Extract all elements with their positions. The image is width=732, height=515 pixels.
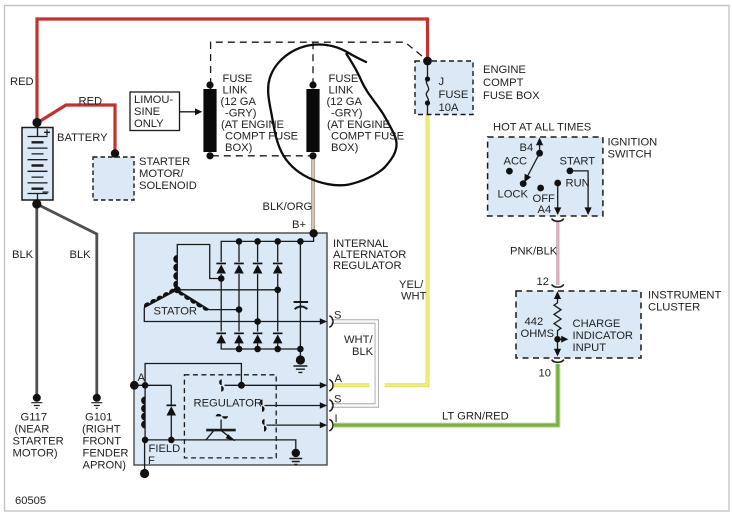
contact curl on A line	[219, 379, 222, 385]
connector arc ignition A4	[552, 219, 564, 222]
ground symbol G117	[31, 403, 42, 409]
capacitor C1 plates	[294, 301, 309, 303]
svg-text:I: I	[335, 413, 338, 425]
junction dot bottom bus col3	[254, 346, 261, 353]
rectifier column 1	[220, 274, 222, 332]
junction dot bus col3	[254, 238, 261, 245]
svg-text:60505: 60505	[15, 495, 46, 507]
arrowhead ignition B4 up	[536, 138, 543, 146]
ignition switch box	[488, 137, 603, 216]
junction dot bus capacitor	[297, 238, 304, 245]
transistor Q1 emitter arrow	[226, 434, 236, 441]
svg-text:FUSE: FUSE	[329, 73, 359, 85]
svg-text:INDICATOR: INDICATOR	[573, 330, 634, 342]
arrowhead A output	[320, 382, 327, 388]
wire BLK battery to G101	[37, 204, 97, 395]
fuse box dashed region outline	[211, 42, 428, 85]
instrument cluster box	[516, 291, 641, 358]
svg-text:F: F	[148, 455, 155, 467]
arrow from limousine box to fuse link 1	[180, 111, 198, 113]
rectifier diode D6	[234, 334, 244, 343]
arrowhead cluster down	[554, 349, 561, 357]
svg-text:IGNITION: IGNITION	[608, 137, 658, 149]
svg-text:(NEAR: (NEAR	[15, 424, 50, 436]
svg-text:YEL/: YEL/	[399, 279, 424, 291]
transistor Q1 emitter lead	[222, 431, 234, 440]
svg-text:BLK: BLK	[70, 249, 92, 261]
svg-text:STARTER: STARTER	[139, 156, 190, 168]
svg-text:FENDER: FENDER	[83, 448, 129, 460]
svg-text:G101: G101	[85, 412, 112, 424]
junction dot bottom bus capacitor corner	[297, 346, 304, 353]
S output line from regulator contact	[265, 405, 326, 407]
junction dot phase A col1	[218, 275, 225, 282]
connector arc cluster pin 12	[552, 284, 564, 287]
transistor Q1 base bar	[206, 429, 236, 432]
ignition switch internals	[526, 141, 589, 212]
svg-text:LIMOU-: LIMOU-	[134, 94, 173, 106]
J fuse box	[415, 61, 473, 115]
svg-text:REGULATOR: REGULATOR	[333, 260, 402, 272]
arrowhead charge indicator tap	[561, 336, 568, 343]
connector arc A terminal	[329, 380, 333, 392]
svg-text:LINK: LINK	[329, 85, 354, 97]
regulator dashed box	[184, 375, 276, 458]
junction dot A node	[142, 382, 149, 389]
stator winding 3 line	[177, 290, 209, 310]
rectifier diode D4	[273, 265, 283, 274]
svg-text:(AT ENGINE: (AT ENGINE	[327, 119, 390, 131]
svg-text:10A: 10A	[439, 102, 459, 114]
arrowhead S stator output	[320, 318, 327, 324]
junction dot field diode bottom	[168, 437, 175, 444]
junction dot B+ terminal	[309, 229, 317, 237]
svg-text:A: A	[335, 373, 343, 385]
svg-text:S: S	[334, 394, 341, 406]
svg-text:COMPT FUSE: COMPT FUSE	[225, 131, 298, 143]
junction dot starter solenoid terminal	[111, 149, 119, 157]
F terminal lead	[144, 440, 146, 471]
svg-text:-GRY): -GRY)	[331, 108, 363, 120]
svg-text:BOX): BOX)	[225, 142, 253, 154]
svg-text:-GRY): -GRY)	[225, 108, 257, 120]
contact dot START	[567, 168, 574, 175]
arrowhead S regulator output	[320, 402, 327, 408]
rectifier diode D5	[216, 334, 226, 343]
svg-text:442: 442	[525, 316, 544, 328]
svg-text:INPUT: INPUT	[573, 342, 607, 354]
rectifier diode D3	[253, 265, 263, 274]
wire RED battery to starter solenoid	[37, 105, 115, 152]
J fuse element	[426, 65, 428, 114]
stator winding 1 line	[176, 254, 178, 290]
arrowhead ignition RUN down	[554, 207, 561, 215]
junction dot field line left	[142, 437, 149, 444]
svg-text:BLK/ORG: BLK/ORG	[263, 201, 313, 213]
J fuse element dots	[425, 76, 430, 81]
svg-text:SINE: SINE	[134, 106, 160, 118]
svg-text:FRONT: FRONT	[83, 436, 122, 448]
svg-text:A4: A4	[538, 204, 552, 216]
stator winding 2 line	[144, 290, 177, 308]
junction dot fuse link 1 top	[206, 81, 213, 88]
svg-text:FUSE: FUSE	[439, 89, 469, 101]
svg-text:FIELD: FIELD	[149, 443, 181, 455]
svg-text:FUSE BOX: FUSE BOX	[483, 90, 540, 102]
contact curl on I line	[262, 419, 265, 425]
fuse link 1 body	[203, 89, 216, 152]
svg-text:WHT: WHT	[401, 291, 427, 303]
junction dot J fuse feed	[423, 57, 432, 66]
field diode leads	[170, 385, 172, 440]
svg-text:RED: RED	[10, 76, 34, 88]
svg-text:BATTERY: BATTERY	[57, 132, 108, 144]
svg-text:(AT ENGINE: (AT ENGINE	[221, 119, 284, 131]
rectifier diode D1	[216, 265, 226, 274]
svg-text:B+: B+	[292, 219, 306, 231]
svg-text:ACC: ACC	[504, 156, 528, 168]
wire YEL/WHT from J fuse to alternator A terminal	[334, 115, 428, 385]
svg-text:LINK: LINK	[223, 85, 248, 97]
limousine-only note box	[130, 92, 180, 131]
wire BLK battery to G117	[35, 204, 38, 395]
svg-text:FUSE: FUSE	[223, 73, 253, 85]
svg-text:INSTRUMENT: INSTRUMENT	[648, 290, 722, 302]
connector arc S regulator terminal	[329, 400, 333, 412]
connector arc S stator terminal	[329, 316, 333, 328]
transistor Q1 collector lead	[206, 431, 214, 440]
connector arc I terminal	[329, 419, 333, 431]
svg-text:STATOR: STATOR	[154, 306, 198, 318]
top bus in alternator	[221, 234, 313, 262]
wire RED battery to top run to fuse box	[37, 19, 428, 123]
A terminal node wiring	[134, 364, 241, 386]
stator winding 1 coil blobs	[173, 255, 177, 289]
arrowhead limousine note	[195, 108, 202, 115]
svg-text:APRON): APRON)	[83, 460, 127, 472]
svg-text:(RIGHT: (RIGHT	[82, 424, 121, 436]
battery box	[22, 128, 53, 201]
I output line from regulator contact	[267, 424, 326, 426]
svg-text:LOCK: LOCK	[498, 189, 529, 201]
contact curl transistor top	[216, 414, 222, 417]
svg-text:J: J	[439, 76, 445, 88]
svg-text:WHT/: WHT/	[344, 334, 373, 346]
wire PNK/BLK ignition switch to cluster pin 12	[556, 222, 559, 285]
junction dot bottom bus col4	[274, 346, 281, 353]
ground symbol rectifier	[293, 366, 307, 372]
battery internal plates	[28, 128, 48, 201]
svg-text:RED: RED	[79, 96, 103, 108]
junction dot battery negative	[32, 199, 41, 208]
arrowhead ignition wiper	[524, 174, 531, 183]
ignition wiper B4 to LOCK	[526, 153, 540, 180]
svg-text:COMPT: COMPT	[483, 77, 524, 89]
bottom bus in alternator	[221, 343, 300, 349]
ignition B4 feed arrow up	[539, 141, 541, 154]
field coil F1 line	[144, 385, 146, 440]
junction dot bus col4	[274, 238, 281, 245]
svg-text:10: 10	[539, 368, 551, 380]
svg-text:S: S	[334, 310, 341, 322]
svg-text:(12 GA: (12 GA	[327, 96, 363, 108]
arrowhead ignition START down	[585, 207, 592, 215]
svg-text:ENGINE: ENGINE	[483, 64, 526, 76]
svg-text:A: A	[138, 372, 146, 384]
connector arc cluster pin 10	[552, 360, 564, 363]
contact curl on S line	[260, 399, 263, 405]
junction dot A output	[238, 382, 245, 389]
stator phase B connection	[209, 309, 239, 311]
junction dot bus col2	[236, 238, 243, 245]
ignition START output arrow	[570, 171, 588, 212]
svg-text:STARTER: STARTER	[13, 436, 64, 448]
wire WHT/BLK stator S to regulator S	[331, 322, 377, 406]
capacitor C1 leads	[299, 241, 301, 358]
fuse box dashed region bottom edge	[211, 85, 312, 156]
wire LT GRN/RED from cluster pin 10 to alternator I terminal	[334, 364, 558, 425]
svg-text:RUN: RUN	[566, 178, 590, 190]
svg-text:PNK/BLK: PNK/BLK	[510, 246, 558, 258]
svg-text:B4: B4	[520, 142, 534, 154]
svg-text:BOX): BOX)	[331, 142, 359, 154]
contact dot ACC	[506, 168, 513, 175]
junction dot fuse link 2 top	[309, 81, 316, 88]
svg-text:CLUSTER: CLUSTER	[648, 302, 700, 314]
field coil F1 blobs	[141, 397, 145, 429]
junction dot F terminal	[140, 469, 149, 478]
internal alternator regulator box	[134, 233, 327, 465]
svg-text:−: −	[42, 185, 49, 199]
rectifier diode D7	[253, 334, 263, 343]
junction dot fuse link 1 bottom	[206, 152, 213, 159]
junction dot stator center	[174, 286, 181, 293]
contact dot OFF	[537, 185, 544, 192]
svg-text:MOTOR/: MOTOR/	[139, 168, 184, 180]
junction dot G101	[93, 394, 101, 402]
svg-text:SOLENOID: SOLENOID	[139, 180, 197, 192]
junction dot G117	[33, 394, 41, 402]
svg-text:START: START	[560, 156, 596, 168]
svg-text:MOTOR): MOTOR)	[13, 448, 58, 460]
stator phase A connection	[177, 245, 221, 279]
junction dot bottom bus col2	[236, 346, 243, 353]
rectifier diode D2	[234, 265, 244, 274]
svg-text:SWITCH: SWITCH	[608, 149, 652, 161]
svg-text:(12 GA: (12 GA	[221, 96, 257, 108]
svg-text:COMPT FUSE: COMPT FUSE	[331, 131, 404, 143]
field line to ground	[145, 440, 296, 450]
wire BLK/ORG fuse link to B+	[311, 157, 314, 232]
svg-text:OHMS: OHMS	[521, 328, 555, 340]
fuse link 2 body	[306, 89, 319, 152]
ground symbol G101	[91, 403, 102, 409]
svg-text:G117: G117	[21, 412, 48, 424]
rectifier column 3	[257, 241, 259, 331]
stator winding 3 coil blobs	[178, 291, 209, 311]
svg-text:12: 12	[537, 276, 549, 288]
rectifier column 2	[238, 241, 240, 331]
stator winding 2 coil blobs	[144, 289, 176, 308]
contact dot B4	[536, 150, 543, 157]
rectifier diode D8	[273, 334, 283, 343]
junction dot battery positive	[32, 118, 41, 127]
junction dot S line col3	[254, 318, 261, 325]
junction dot regulator ground	[292, 449, 300, 457]
svg-text:HOT AT ALL TIMES: HOT AT ALL TIMES	[493, 122, 591, 134]
A output line to terminal	[225, 384, 326, 386]
cluster tap to charge indicator	[558, 338, 565, 340]
hand-drawn circle around fuse link 2	[268, 45, 396, 186]
svg-text:BLK: BLK	[352, 346, 374, 358]
fuse box dashed region vertical for fuse link 2	[312, 42, 314, 84]
svg-text:REGULATOR: REGULATOR	[194, 398, 263, 410]
svg-text:BLK: BLK	[12, 249, 34, 261]
ground symbol regulator	[289, 459, 302, 465]
svg-text:CHARGE: CHARGE	[573, 318, 621, 330]
junction dot rectifier ground	[296, 355, 305, 364]
ignition RUN output arrow	[557, 183, 559, 212]
svg-text:LT GRN/RED: LT GRN/RED	[442, 411, 509, 423]
transistor Q1 top lead	[220, 420, 222, 431]
starter solenoid box	[93, 157, 134, 200]
arrowhead I output	[320, 422, 327, 428]
svg-text:ONLY: ONLY	[134, 118, 164, 130]
contact dot RUN	[554, 180, 561, 187]
field diode D9	[167, 406, 177, 415]
cluster lower lead	[557, 339, 559, 353]
junction dot resistor tap	[554, 336, 560, 342]
junction dot fuse link 2 bottom	[309, 152, 316, 159]
junction dot center tap col4	[274, 287, 281, 294]
cluster internals: resistor 442 ohms	[554, 294, 564, 354]
rectifier column 4	[277, 241, 279, 331]
junction dot phase B col2	[236, 306, 243, 313]
arrowhead cluster up	[554, 291, 561, 299]
stator phase C / S output line	[144, 308, 325, 322]
contact dot LOCK	[520, 180, 527, 187]
stator center tap connection	[177, 289, 277, 291]
svg-text:+: +	[44, 126, 51, 140]
junction dot A terminal on box edge	[130, 381, 139, 390]
